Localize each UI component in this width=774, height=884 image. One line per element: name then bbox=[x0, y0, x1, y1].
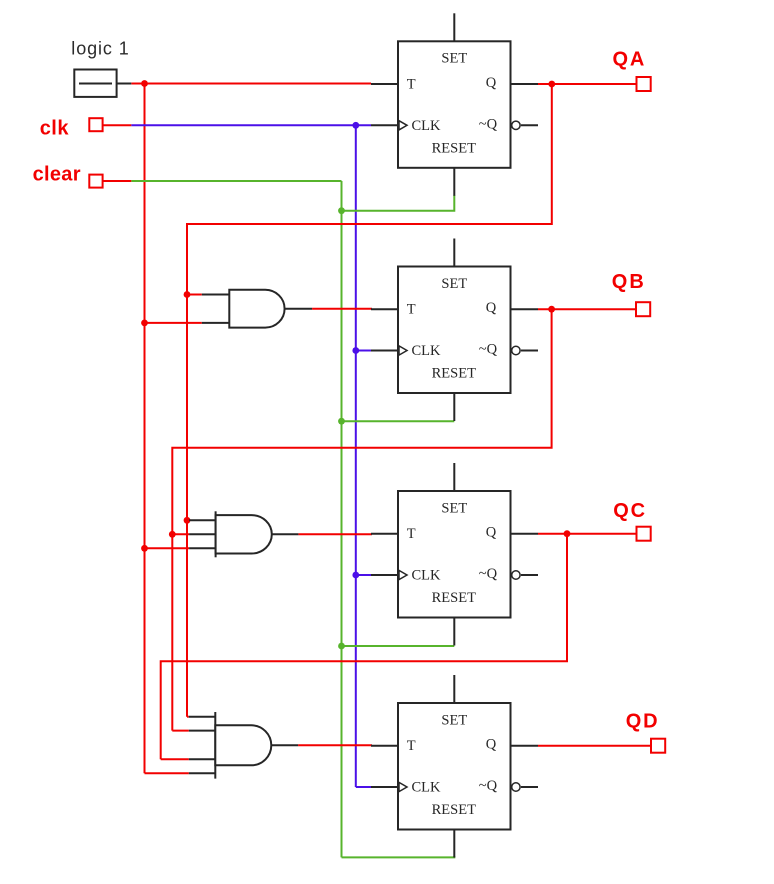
wire QA net: branch AND4 input 1 bbox=[187, 716, 189, 718]
U2 Q pin stub bbox=[511, 308, 539, 310]
wire logic1 net: branch to AND2 input 2 bbox=[145, 322, 202, 324]
U1 ~Q pin stub bbox=[521, 124, 538, 126]
wire clear net: U1 RESET link bbox=[342, 195, 455, 210]
svg-text:clear: clear bbox=[33, 164, 81, 186]
U1 CLK pin stub bbox=[371, 124, 398, 126]
svg-text:QA: QA bbox=[613, 49, 647, 71]
svg-text:SET: SET bbox=[441, 51, 467, 67]
logic 1 source symbol line bbox=[79, 83, 112, 85]
wire QA net: branch AND2 input 1 bbox=[187, 294, 202, 296]
wire QA net: branch AND3 input 1 bbox=[187, 519, 189, 521]
U2 RESET pin stub bbox=[453, 393, 455, 421]
svg-text:CLK: CLK bbox=[412, 568, 442, 584]
logic 1 source output stub bbox=[117, 83, 132, 85]
AND gate A3 (4-input) bbox=[214, 712, 216, 779]
wire QD net: Q to QD pin bbox=[538, 745, 651, 747]
U3 SET pin stub bbox=[453, 463, 455, 491]
svg-text:CLK: CLK bbox=[412, 118, 442, 134]
junction clear at U3 link bbox=[338, 643, 345, 650]
junction clear at U2 link bbox=[338, 418, 345, 425]
wire AND3 output to U3 T bbox=[298, 533, 372, 535]
junction clk at U3 row bbox=[352, 572, 359, 579]
svg-text:T: T bbox=[407, 77, 416, 93]
svg-text:SET: SET bbox=[441, 276, 467, 292]
svg-text:SET: SET bbox=[441, 500, 467, 516]
U1 T pin stub bbox=[371, 83, 398, 85]
svg-text:~Q: ~Q bbox=[479, 566, 498, 582]
U2 CLK pin stub bbox=[371, 350, 398, 352]
AND3 output stub bbox=[271, 533, 299, 535]
svg-text:CLK: CLK bbox=[412, 343, 442, 359]
U3 T pin stub bbox=[371, 533, 398, 535]
U4 ~Q bubble bbox=[512, 783, 520, 791]
U3 RESET pin stub bbox=[453, 618, 455, 646]
U3 ~Q pin stub bbox=[521, 574, 538, 576]
svg-text:Q: Q bbox=[486, 75, 497, 91]
output pin QC bbox=[637, 527, 651, 541]
wire logic1 net: vertical trunk down left side bbox=[144, 84, 146, 774]
U4 Q pin stub bbox=[511, 745, 539, 747]
svg-text:Q: Q bbox=[486, 525, 497, 541]
wire clk net: branch U3 CLK bbox=[356, 574, 371, 576]
svg-text:SET: SET bbox=[441, 712, 467, 728]
svg-text:Q: Q bbox=[486, 737, 497, 753]
junction QA/AND2 bbox=[184, 291, 191, 298]
U3 CLK edge triangle bbox=[399, 570, 407, 579]
AND gate A1 (2-input) bbox=[229, 290, 284, 328]
input pin clk bbox=[89, 118, 102, 131]
junction QC at Q output bbox=[564, 530, 571, 537]
output pin QB bbox=[636, 302, 650, 316]
svg-text:T: T bbox=[407, 526, 416, 542]
svg-text:logic 1: logic 1 bbox=[71, 39, 129, 59]
svg-text:T: T bbox=[407, 738, 416, 754]
svg-text:RESET: RESET bbox=[432, 590, 476, 606]
wire logic1 net: horizontal from source to U1 T bbox=[131, 83, 371, 85]
junction clear at U1 link bbox=[338, 207, 345, 214]
wire AND4 output to U4 T bbox=[298, 744, 372, 746]
output pin QA bbox=[637, 77, 651, 91]
AND2 output stub bbox=[285, 308, 313, 310]
wire clear net: horizontal from pin bbox=[131, 180, 341, 182]
svg-text:RESET: RESET bbox=[432, 802, 476, 818]
T flip-flop U1 body bbox=[398, 41, 511, 168]
svg-text:RESET: RESET bbox=[432, 140, 476, 156]
wire QB net: branch AND4 input 2 bbox=[172, 730, 189, 732]
AND4 input stubs bbox=[189, 716, 216, 718]
svg-text:T: T bbox=[407, 302, 416, 318]
junction clk at U1 row bbox=[352, 122, 359, 129]
svg-text:Q: Q bbox=[486, 300, 497, 316]
junction QB at Q output bbox=[548, 306, 555, 313]
AND3 input stubs bbox=[189, 519, 216, 521]
U2 T pin stub bbox=[371, 308, 398, 310]
wire AND2 output to U2 T bbox=[312, 308, 372, 310]
wire QB net: Q to QB pin bbox=[538, 308, 636, 310]
svg-text:RESET: RESET bbox=[432, 366, 476, 382]
wire QA net: Q to QA pin bbox=[538, 83, 637, 85]
wire clear net: U2 RESET link bbox=[342, 420, 455, 422]
U2 ~Q bubble bbox=[512, 346, 520, 354]
U4 T pin stub bbox=[371, 745, 398, 747]
junction QA at Q output bbox=[548, 81, 555, 88]
wire clk pin stub bbox=[103, 124, 132, 126]
U3 Q pin stub bbox=[511, 533, 539, 535]
U1 Q pin stub bbox=[511, 83, 539, 85]
wire clear net: U3 RESET link bbox=[342, 645, 455, 647]
T flip-flop U3 body bbox=[398, 491, 511, 618]
junction logic1/AND2 input bbox=[141, 320, 148, 327]
AND gate A2 (3-input) bbox=[215, 511, 217, 557]
input pin clear bbox=[89, 175, 102, 188]
wire QC net: branch AND4 input 3 bbox=[161, 758, 189, 760]
svg-text:QD: QD bbox=[626, 711, 660, 733]
svg-text:~Q: ~Q bbox=[479, 342, 498, 358]
U1 ~Q bubble bbox=[512, 121, 520, 129]
wire logic1 net: branch to AND3 input 3 bbox=[145, 547, 190, 549]
wire clear net: U4 RESET link bbox=[342, 856, 455, 857]
AND2 input stubs bbox=[202, 294, 230, 296]
U2 ~Q pin stub bbox=[521, 350, 538, 352]
U1 SET pin stub bbox=[453, 13, 455, 41]
wire clear net: vertical trunk bbox=[341, 181, 343, 857]
U1 CLK edge triangle bbox=[399, 121, 407, 130]
U2 CLK edge triangle bbox=[399, 346, 407, 355]
svg-text:~Q: ~Q bbox=[479, 116, 498, 132]
junction QA/AND3 bbox=[184, 517, 191, 524]
U4 CLK edge triangle bbox=[399, 782, 407, 791]
wire QA net: feedback down bbox=[187, 84, 552, 717]
U1 RESET pin stub bbox=[453, 168, 455, 196]
wire QB net: feedback down bbox=[172, 309, 551, 730]
logic 1 source body bbox=[74, 70, 116, 97]
wire QB net: branch AND3 input 2 bbox=[172, 533, 189, 535]
junction clk at U2 row bbox=[352, 347, 359, 354]
wire logic1 net: branch to AND4 input 4 bbox=[145, 772, 189, 774]
U2 SET pin stub bbox=[453, 239, 455, 267]
T flip-flop U2 body bbox=[398, 267, 511, 394]
U3 CLK pin stub bbox=[371, 574, 398, 576]
wire clk net: horizontal to U1 CLK bbox=[131, 124, 371, 126]
svg-text:CLK: CLK bbox=[412, 780, 442, 796]
wire clear pin stub bbox=[103, 180, 132, 182]
U4 SET pin stub bbox=[453, 675, 455, 703]
wire QC net: feedback down bbox=[161, 534, 567, 760]
wire QC net: Q to QC pin bbox=[538, 533, 637, 535]
svg-text:clk: clk bbox=[40, 117, 70, 139]
U3 ~Q bubble bbox=[512, 571, 520, 579]
U4 CLK pin stub bbox=[371, 786, 398, 788]
svg-text:QC: QC bbox=[613, 500, 647, 522]
wire clk net: vertical trunk bbox=[355, 125, 357, 787]
junction logic1/QA wire bbox=[141, 80, 148, 87]
svg-text:QB: QB bbox=[612, 271, 646, 293]
output pin QD bbox=[651, 739, 665, 753]
svg-text:~Q: ~Q bbox=[479, 778, 498, 794]
wire clk net: branch U4 CLK bbox=[356, 786, 371, 788]
T flip-flop U4 body bbox=[398, 703, 511, 830]
junction logic1/AND3 input bbox=[141, 545, 148, 552]
junction QB/AND3 bbox=[169, 531, 176, 538]
U4 RESET pin stub bbox=[453, 830, 455, 858]
AND4 output stub bbox=[271, 744, 299, 746]
wire clk net: branch U2 CLK bbox=[356, 350, 371, 352]
U4 ~Q pin stub bbox=[521, 786, 538, 788]
